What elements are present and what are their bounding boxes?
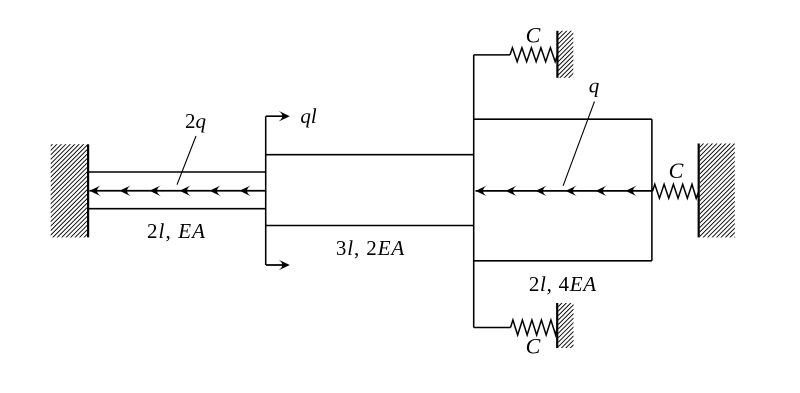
svg-text:3l, 2EA: 3l, 2EA: [336, 236, 405, 260]
svg-text:C: C: [526, 334, 541, 359]
svg-text:2l, EA: 2l, EA: [147, 219, 206, 243]
svg-text:ql: ql: [300, 104, 317, 128]
svg-text:q: q: [589, 74, 600, 98]
svg-text:C: C: [526, 23, 541, 48]
svg-text:2q: 2q: [185, 109, 207, 133]
svg-text:C: C: [669, 158, 684, 183]
svg-text:2l, 4EA: 2l, 4EA: [529, 272, 597, 296]
